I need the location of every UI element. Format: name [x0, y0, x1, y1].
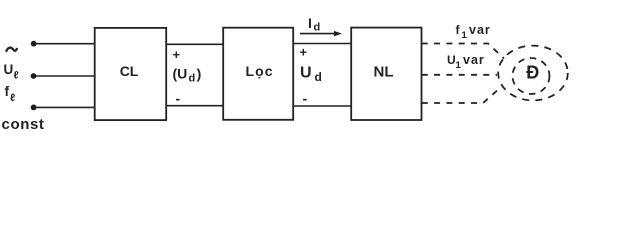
- svg-text:d: d: [315, 70, 322, 84]
- svg-text:-: -: [176, 90, 181, 106]
- wire Loc plus to NL (top dc link): [293, 43, 351, 45]
- wire CL minus to Loc (bottom dc link): [166, 105, 223, 107]
- dashed wire NL output phase 2: [422, 74, 497, 76]
- wire input line 3: [34, 106, 95, 108]
- label AC source ~: [6, 48, 17, 52]
- svg-text:U: U: [4, 62, 14, 77]
- block CL rectifier: [95, 28, 167, 120]
- dashed wire NL output phase 1: [422, 44, 504, 59]
- svg-text:U: U: [447, 53, 456, 67]
- motor D inner rotor dashed circle: [513, 58, 550, 94]
- svg-text:d: d: [189, 73, 196, 85]
- svg-text:d: d: [314, 22, 321, 34]
- wire CL plus to Loc (top dc link): [166, 43, 223, 45]
- svg-text:Đ: Đ: [526, 62, 539, 82]
- node input 1: [31, 41, 37, 47]
- svg-text:-: -: [303, 90, 308, 106]
- motor D outer stator dashed circle: [498, 46, 568, 101]
- svg-text:NL: NL: [374, 63, 394, 80]
- svg-text:const: const: [2, 116, 45, 133]
- svg-text:I: I: [308, 15, 312, 31]
- svg-text:CL: CL: [120, 63, 139, 79]
- wire input line 2: [34, 75, 96, 77]
- svg-text:f: f: [5, 84, 10, 99]
- dashed wire NL output phase 3: [422, 88, 500, 103]
- wire input line 1: [34, 43, 95, 45]
- svg-text:): ): [197, 66, 202, 82]
- current arrow Id: [300, 33, 335, 35]
- svg-text:Lọc: Lọc: [246, 63, 274, 79]
- node input 3: [31, 105, 37, 111]
- svg-text:var: var: [469, 23, 491, 37]
- svg-text:+: +: [173, 47, 181, 62]
- svg-text:U: U: [300, 65, 312, 82]
- svg-text:ℓ: ℓ: [14, 70, 19, 82]
- svg-text:1: 1: [462, 30, 468, 41]
- svg-text:(U: (U: [173, 66, 188, 82]
- node input 2: [31, 73, 37, 79]
- svg-text:+: +: [300, 44, 308, 59]
- svg-text:1: 1: [456, 60, 462, 71]
- block NL inverter: [351, 28, 421, 120]
- wire Loc minus to NL (bottom dc link): [293, 105, 351, 107]
- svg-text:var: var: [463, 53, 485, 67]
- block Loc filter: [223, 28, 293, 120]
- svg-text:ℓ: ℓ: [10, 92, 15, 104]
